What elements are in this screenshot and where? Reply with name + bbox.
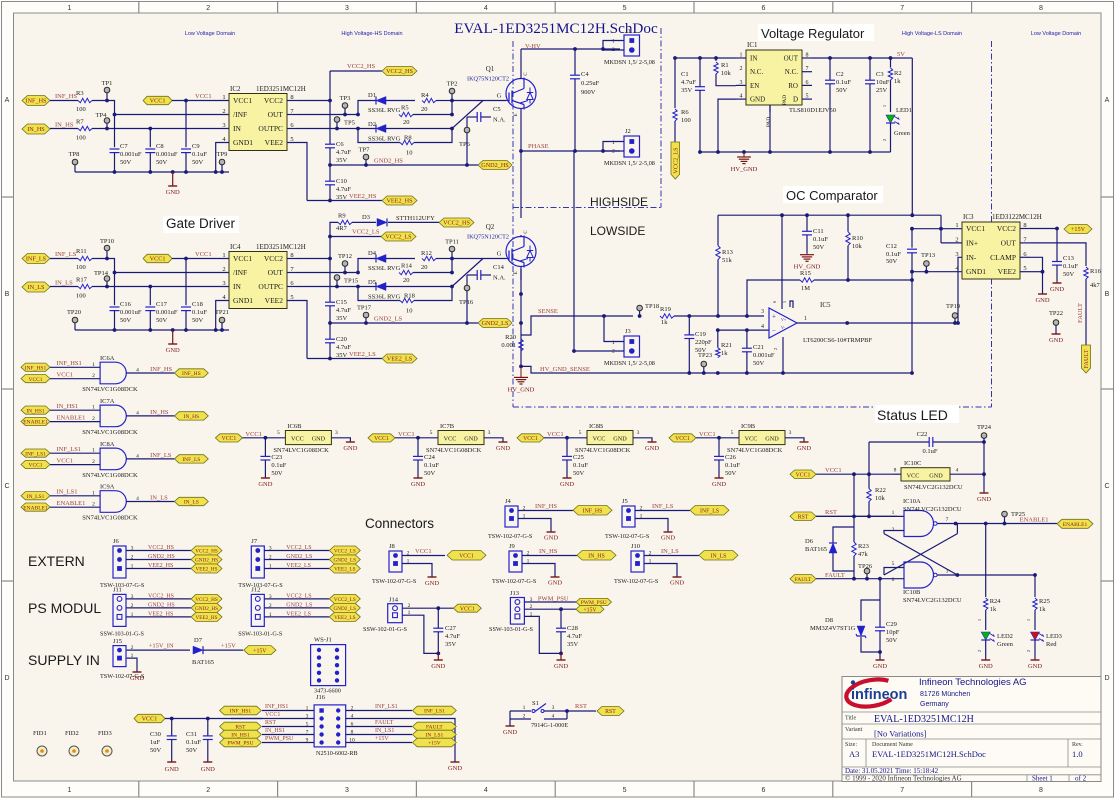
svg-text:TP13: TP13 [921,252,935,259]
wire R5 out [413,114,452,116]
svg-text:SS36L RVG: SS36L RVG [368,136,401,143]
svg-text:TP18: TP18 [645,303,659,310]
svg-text:VCC2_LS: VCC2_LS [673,147,680,174]
svg-text:TP20: TP20 [67,309,81,316]
svg-text:50V: 50V [192,159,204,166]
diode D7 [193,646,203,654]
ground GND S1 [506,725,515,727]
svg-text:Rev.: Rev. [1072,742,1083,748]
svg-text:+15V: +15V [428,741,441,747]
svg-text:C29: C29 [886,621,897,628]
testpoint TP3 [342,103,348,109]
port VCC1 [21,375,50,383]
ground GND J15 [133,671,142,673]
svg-text:1: 1 [92,490,95,496]
svg-text:IKQ75N120CT2: IKQ75N120CT2 [467,234,509,241]
port INF_LS [690,506,729,516]
svg-text:IC3: IC3 [963,213,974,221]
port IN_HS [174,412,208,420]
svg-text:6: 6 [761,787,765,794]
svg-text:VCC2: VCC2 [264,96,283,105]
svg-text:220pF: 220pF [695,339,712,346]
svg-text:J4: J4 [505,498,512,505]
wire VCC to RST branch [853,474,855,516]
wire J9 pin2 IN_HS [522,555,577,557]
svg-text:GND: GND [201,766,215,773]
svg-text:VEE2: VEE2 [998,267,1017,276]
svg-text:VCC1: VCC1 [150,256,166,263]
testpoint TP9 [219,159,225,165]
wire IC4 VEE2 down [287,301,307,359]
wire diagonal gate join [452,101,483,129]
wire IC7B GND pin [484,438,503,442]
svg-text:Size:: Size: [845,742,857,748]
svg-text:R25: R25 [1039,598,1050,605]
svg-text:10k: 10k [852,243,863,250]
testpoint TP5 [334,117,340,123]
wire to D8 [861,600,880,621]
wire opamp inverting [718,329,769,331]
svg-text:4.7uF: 4.7uF [336,307,351,314]
svg-text:35V: 35V [445,641,457,648]
svg-text:Voltage Regulator: Voltage Regulator [761,26,865,41]
power port VCC1 [143,96,172,104]
svg-text:EVAL-1ED3251MC12H: EVAL-1ED3251MC12H [874,714,974,725]
wire INF_HS1 to IC6A [50,366,100,368]
wire R2 to LED1 [890,80,892,112]
svg-text:IN_HS: IN_HS [55,122,74,129]
svg-text:N.A.: N.A. [493,275,506,282]
port VCC1 statusled [790,470,816,479]
wire C5 branch [466,117,468,133]
wire IN_HS to R7 [50,128,78,130]
wire S1 to GND [509,719,511,726]
svg-text:VCC2_HS: VCC2_HS [347,63,376,70]
svg-text:TSW-102-07-G-S: TSW-102-07-G-S [492,578,537,585]
capacitor C17 [145,306,155,308]
svg-text:GND: GND [670,580,684,587]
svg-text:RST: RST [825,509,837,516]
port VCC2_LS [329,546,360,555]
svg-text:C28: C28 [567,625,578,632]
svg-text:R13: R13 [722,249,733,256]
wire VCC1 to IC6B [242,437,285,439]
svg-text:1: 1 [955,222,958,229]
ground GND J14 [437,653,439,660]
ground GND IC6B [346,441,355,443]
capacitor C30 [167,735,177,737]
wire ground rail [75,171,229,173]
svg-text:D3: D3 [362,214,370,221]
svg-text:4.7uF: 4.7uF [336,344,351,351]
port IN_HS1 [21,406,50,414]
svg-text:5: 5 [623,787,627,794]
wire J2 pin2 [603,150,624,152]
svg-text:IN+: IN+ [966,238,978,247]
svg-text:0.1uF: 0.1uF [1063,263,1078,270]
svg-text:D2: D2 [368,121,376,128]
svg-text:C20: C20 [336,336,347,343]
svg-text:C24: C24 [424,454,436,461]
port VCC2_LS [329,594,360,603]
svg-text:1ED3122MC12H: 1ED3122MC12H [992,213,1042,221]
svg-text:VEE2_LS: VEE2_LS [334,615,355,621]
svg-text:C3: C3 [876,71,884,78]
wire IC6B GND pin [331,438,350,442]
svg-text:2: 2 [206,5,210,12]
ground HV_GND comparator [806,254,808,255]
svg-text:GND: GND [425,580,439,587]
svg-text:V-: V- [781,325,786,330]
svg-text:VCC1: VCC1 [150,98,166,105]
svg-text:C9: C9 [192,143,200,150]
svg-text:SN74LVC1G08DCK: SN74LVC1G08DCK [82,472,138,479]
svg-text:CLAMP: CLAMP [990,253,1016,262]
wire J12 VCC2_LS [264,598,329,600]
svg-text:GND: GND [548,580,562,587]
wire D3 to port [388,221,439,223]
svg-text:D: D [4,675,9,682]
wire to opamp + [674,315,764,317]
svg-text:VCC1: VCC1 [825,467,842,474]
svg-text:2: 2 [955,236,958,243]
svg-text:GND: GND [645,445,659,452]
svg-text:TSW-103-07-G-S: TSW-103-07-G-S [100,582,145,589]
testpoint TP17 [363,312,369,318]
connector J7 [251,546,264,578]
resistor R2 [888,68,892,80]
svg-text:IN: IN [233,282,241,291]
wire IC5 V+ to rail [781,215,783,309]
svg-text:INF_LS1: INF_LS1 [57,446,82,453]
svg-text:C14: C14 [493,264,505,271]
wire TP22 to GND [1055,325,1057,334]
wire GND2 rail [330,322,478,324]
svg-text:0.1uF: 0.1uF [886,251,901,258]
svg-text:IN_HS1: IN_HS1 [57,403,79,410]
svg-text:RO: RO [788,82,798,90]
svg-text:FAULT: FAULT [825,572,845,579]
wire IC3 VCC1 row [912,228,962,230]
svg-text:100: 100 [76,293,86,300]
svg-text:Variant: Variant [845,727,863,733]
resistor R18 [400,298,414,302]
svg-text:5: 5 [579,430,582,436]
capacitor C9 [181,148,191,150]
resistor R22 [867,489,871,502]
svg-text:J12: J12 [251,586,260,593]
ground HV_GND regulator [743,152,745,157]
wire VCC1 to IC8A [50,464,100,466]
port VEE2_HS [382,196,417,205]
svg-text:0.25uF: 0.25uF [581,80,600,87]
S1 actuator [535,704,546,712]
svg-text:10: 10 [406,308,413,315]
port ENABLE1 [21,417,50,425]
svg-text:TSW-102-07-G-S: TSW-102-07-G-S [372,578,417,585]
testpoint TP16 [464,285,470,291]
wire VCC1 to IC7B [395,437,438,439]
capacitor C28 [556,627,566,629]
svg-text:INF_LS1: INF_LS1 [25,451,46,457]
svg-text:VEE2_LS: VEE2_LS [349,351,376,358]
svg-text:SS36L RVG: SS36L RVG [368,265,401,272]
svg-text:Gate Driver: Gate Driver [166,216,236,231]
Infineon logo [844,676,907,711]
svg-text:OUT: OUT [268,268,284,277]
port VCC2_HS bootstrap [439,218,474,227]
svg-text:900V: 900V [581,89,596,96]
svg-text:GND: GND [165,766,179,773]
port INF_HS1 J16 [220,706,262,715]
port RST S1 [597,707,624,716]
svg-text:MM3Z4V7ST1G: MM3Z4V7ST1G [810,625,856,632]
wire RST row [816,515,904,517]
svg-text:GND2_LS: GND2_LS [286,602,312,608]
svg-text:81726 München: 81726 München [920,691,970,698]
svg-text:6: 6 [892,577,895,583]
wire to C9 [185,101,187,148]
svg-text:D6: D6 [805,538,814,545]
port VEE2_LS [382,354,417,363]
wire comparator top rail [718,214,941,216]
ground GND C13 [1056,281,1058,283]
svg-text:A: A [1105,97,1110,104]
port IN_LS1 [21,492,50,500]
svg-text:1: 1 [882,105,887,107]
svg-text:A3: A3 [849,749,859,759]
svg-text:VCC1: VCC1 [265,712,280,718]
svg-text:10uF: 10uF [876,79,890,86]
resistor R14 [399,270,413,274]
junction TP14 node [113,271,117,275]
wire J5 pin1 to GND [635,519,668,533]
wire R21 top [717,330,719,348]
wire OUT pin7 [297,272,358,274]
diode D5 [376,283,386,291]
resistor R17 [78,284,92,288]
port INF_HS [573,506,612,516]
svg-text:3: 3 [345,787,349,794]
wire R17 to pin3 [92,286,229,288]
svg-text:GND: GND [411,481,425,488]
svg-text:100: 100 [681,117,691,124]
svg-text:51k: 51k [722,257,733,264]
svg-text:GND1: GND1 [966,267,986,276]
wire IC10A pin2 [884,531,904,534]
resistor R15 [800,278,814,282]
svg-text:C2: C2 [836,71,844,78]
capacitor C31 branch [206,717,210,721]
svg-text:EXTERN: EXTERN [28,553,85,569]
svg-text:[No Variations]: [No Variations] [874,729,927,739]
svg-text:TP6: TP6 [459,141,471,148]
port IN_LS1 J16 [413,730,457,739]
svg-text:3: 3 [222,122,225,129]
wire to R8 [358,129,400,143]
svg-text:VCC1: VCC1 [195,251,212,258]
svg-text:50V: 50V [192,317,204,324]
svg-text:D5: D5 [368,279,376,286]
svg-text:SN74LVC1G08DCK: SN74LVC1G08DCK [426,447,482,454]
svg-text:VCC: VCC [745,436,758,443]
section title OC Comparator [783,186,883,203]
wire INF_LS1 to IC8A [50,452,100,454]
svg-text:VEE2_LS: VEE2_LS [286,563,311,569]
wire J16 pin 6 FAULT [346,726,412,728]
testpoint TP13 [924,261,930,267]
connector J13 [510,598,524,625]
svg-text:of 2: of 2 [1075,775,1087,783]
svg-text:VCC1: VCC1 [28,377,42,383]
wire J7 VEE2_LS [264,568,329,570]
svg-text:RST: RST [798,514,809,520]
power port VCC1 [143,254,172,262]
wire J13 pin1 down [524,616,561,653]
wire V-HV to Q1 collector [520,49,522,77]
wire IC8A output [126,458,174,460]
svg-text:IN_HS: IN_HS [588,553,604,559]
svg-text:35V: 35V [336,157,348,164]
svg-text:IC8B: IC8B [589,423,604,430]
wire R3 to pin2 [92,101,229,115]
svg-text:7: 7 [900,5,904,12]
svg-text:1: 1 [523,705,526,711]
svg-text:J13: J13 [510,590,519,597]
svg-text:1k: 1k [894,78,901,85]
ruler tick left [2,196,14,198]
testpoint TP26 [864,568,870,574]
svg-text:Infineon Technologies AG: Infineon Technologies AG [919,677,1027,688]
port IN_HS [22,124,50,134]
wire LED1 to rail [890,123,892,152]
svg-text:D4: D4 [368,250,377,257]
testpoint TP23 [701,361,707,367]
capacitor C2 [825,79,835,81]
svg-text:R4: R4 [421,92,429,99]
junction cap tap [148,285,152,289]
svg-text:VCC2: VCC2 [264,254,283,263]
wire J8 pin1 GND [402,564,432,578]
wire J7 GND2_LS [264,559,329,561]
wire IC1 PAD to rail [769,105,771,152]
wire VCC1 to IC8B [544,437,587,439]
wire Q2 emitter down [520,269,522,366]
wire SENSE [521,316,633,335]
port INF_HS [22,96,50,106]
svg-text:2: 2 [773,348,778,350]
wire to C8 [149,129,151,148]
port VCC1 for IC6B [215,434,242,442]
wire IC5 V- down [782,337,784,373]
resistor R4 [422,98,436,102]
svg-text:PWM_PSU: PWM_PSU [227,741,253,747]
wire to C4 [574,49,576,75]
voltage regulator IC1 [746,50,802,105]
port VEE2_LS [329,564,360,573]
wire IC3 VCC2 to +15V [1030,228,1057,230]
svg-text:VCC1: VCC1 [459,553,474,559]
svg-text:R15: R15 [800,270,811,277]
svg-text:ENABLE1: ENABLE1 [23,420,48,426]
ground GND J8 [428,576,437,578]
svg-text:GND: GND [797,445,811,452]
svg-text:C15: C15 [336,299,347,306]
wire R11 to pin2 [92,259,229,273]
svg-text:IN_HS: IN_HS [27,126,45,133]
wire HV_GND_SENSE rail right [663,372,912,374]
svg-text:R1: R1 [721,62,729,69]
port FAULT output [1082,345,1091,373]
port VEE2_LS [329,612,360,621]
svg-text:C4: C4 [581,71,589,78]
svg-text:TP1: TP1 [102,80,113,87]
svg-text:3: 3 [335,430,338,436]
svg-text:FID3: FID3 [98,730,112,737]
svg-text:R14: R14 [401,263,413,270]
svg-text:3: 3 [789,430,792,436]
ruler tick top [693,2,695,14]
ground GND C25 [563,477,572,479]
resistor R1 [714,62,718,74]
svg-text:50V: 50V [573,470,585,477]
svg-text:GND2_LS: GND2_LS [374,316,403,323]
svg-text:N.C.: N.C. [750,68,763,76]
ground GND C23 [261,477,270,479]
svg-text:5: 5 [277,430,280,436]
connector J12 [251,594,264,626]
svg-text:0.1uF: 0.1uF [192,309,207,316]
svg-text:FAULT: FAULT [1077,303,1084,323]
svg-text:35V: 35V [681,87,693,94]
svg-text:IN_LS1: IN_LS1 [27,494,45,500]
wire J16 pin 2 INF_LS1 [346,710,412,712]
svg-text:2: 2 [222,108,225,115]
svg-text:Status LED: Status LED [877,407,948,423]
ruler tick top [138,2,140,14]
svg-text:J7: J7 [251,538,258,545]
svg-text:4: 4 [484,5,488,12]
svg-text:SN74LVC2G132DCU: SN74LVC2G132DCU [903,506,962,513]
svg-text:IN_LS: IN_LS [184,500,199,506]
capacitor C13 [1052,261,1062,263]
svg-text:0.001uF: 0.001uF [156,309,178,316]
svg-text:VCC1: VCC1 [233,96,252,105]
svg-text:VCC2_HS: VCC2_HS [148,545,174,551]
junction VCC1 cap [184,257,188,261]
svg-text:35V: 35V [336,315,348,322]
svg-text:TP17: TP17 [357,305,372,312]
svg-text:6: 6 [761,5,765,12]
svg-text:BAT165: BAT165 [805,546,827,553]
wire to C16 [114,273,116,306]
svg-text:R3: R3 [76,90,84,97]
wire VEE2 to GND [1042,272,1044,294]
svg-text:2: 2 [222,266,225,273]
svg-text:INF_HS: INF_HS [150,366,172,373]
svg-text:IN_LS: IN_LS [661,548,679,555]
wire IC2 GND1 to ground rail [216,143,229,173]
wire FAULT down [879,579,881,600]
svg-text:VCC2_LS: VCC2_LS [334,549,356,555]
resistor R10 [846,232,850,246]
capacitor C7 [110,148,120,150]
svg-text:C10: C10 [336,178,347,185]
ruler tick right [1101,388,1114,390]
svg-text:VCC1: VCC1 [547,431,564,438]
svg-text:SN74LVC1G08DCK: SN74LVC1G08DCK [727,447,783,454]
svg-text:VCC1: VCC1 [796,472,811,478]
